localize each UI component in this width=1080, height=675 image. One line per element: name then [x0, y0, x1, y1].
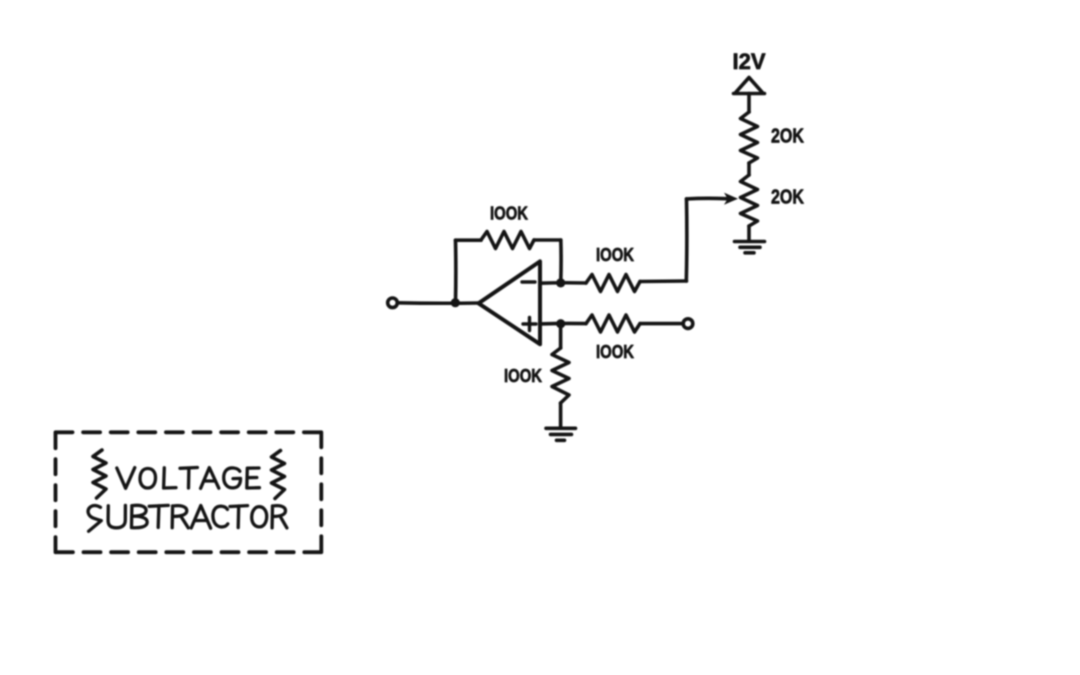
decorative resistor squiggle right — [272, 451, 285, 499]
wire supply to R 20K upper — [747, 94, 751, 113]
wire to input terminal — [640, 322, 683, 326]
resistor 20K upper — [741, 112, 758, 163]
title text SUBTRACTOR (hand-drawn letters) — [88, 505, 287, 531]
wire feedback top right — [534, 238, 561, 242]
resistor 100K inverting series — [586, 275, 640, 292]
dashed label box — [56, 432, 322, 552]
wire between 20K resistors — [747, 163, 751, 175]
op-amp minus pin symbol — [522, 280, 535, 283]
svg-text:2OK: 2OK — [771, 126, 804, 148]
wire op-amp minus input — [540, 281, 586, 285]
junction output node — [451, 298, 460, 307]
junction inverting node — [556, 278, 565, 287]
wire output — [398, 301, 479, 305]
output terminal — [388, 298, 398, 308]
svg-text:I2V: I2V — [733, 49, 766, 74]
wire feedback up — [454, 240, 458, 302]
wire feedback down to inverting node — [559, 240, 563, 280]
wire resistor to ground — [559, 403, 563, 427]
op-amp U1 — [479, 261, 541, 344]
resistor 100K non-inverting series — [586, 315, 640, 332]
ground (divider) — [735, 242, 765, 253]
input terminal (non-inverting) — [683, 319, 693, 329]
svg-text:IOOK: IOOK — [596, 245, 634, 265]
svg-text:IOOK: IOOK — [596, 342, 634, 362]
wire feedback top left — [456, 238, 482, 242]
wire non-inverting node down — [559, 324, 563, 348]
resistor 100K feedback — [481, 232, 534, 249]
resistor 20K lower — [741, 175, 758, 226]
resistor 100K to ground — [552, 348, 569, 403]
wiper arrow tap on 20K lower — [687, 197, 727, 201]
wire op-amp plus input — [540, 322, 586, 326]
wire R 20K lower to ground — [747, 226, 751, 240]
svg-text:IOOK: IOOK — [490, 204, 528, 224]
svg-text:2OK: 2OK — [771, 187, 804, 209]
title text VOLTAGE (hand-drawn letters) — [117, 468, 260, 489]
wire tap vertical — [684, 199, 688, 281]
junction non-inverting node — [556, 319, 565, 328]
power symbol 12V supply triangle — [734, 78, 765, 94]
svg-text:IOOK: IOOK — [504, 366, 542, 386]
wire tap to R 100K inverting — [640, 279, 687, 283]
op-amp plus pin symbol — [523, 318, 536, 331]
decorative resistor squiggle left — [93, 450, 106, 498]
ground (op-amp input divider) — [546, 428, 576, 440]
